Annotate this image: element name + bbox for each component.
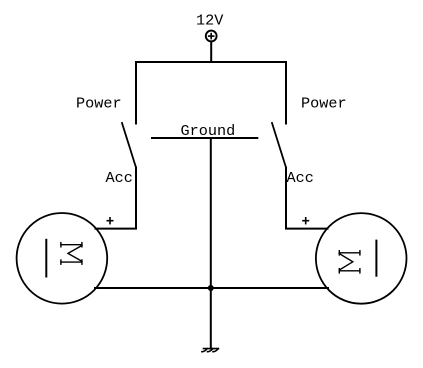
motor M1 (left) [17,213,108,304]
junction node at center/bottom bus [208,285,214,291]
motor M2 (right) [316,213,407,304]
ground (chassis) symbol [202,349,218,352]
svg-text:12V: 12V [196,12,224,30]
wire from 12V terminal to top bus [210,41,212,62]
wire right drop to switch [285,62,287,124]
wire right switch to motor + [286,168,328,229]
switch S2 arm (right, Power/Acc) [272,123,286,168]
svg-text:Acc: Acc [106,169,133,187]
wire left drop to switch [135,62,137,124]
wire center vertical (ground bar to chassis ground) [210,138,212,349]
wire top bus [136,61,286,63]
switch S1 arm (left, Power/Acc) [122,123,136,168]
label + (left) [107,217,114,224]
svg-text:Acc: Acc [287,169,314,187]
wire ground bar [152,137,257,139]
label + (right) [302,217,309,224]
wire left switch to motor + [96,168,137,229]
battery terminal B1 (+12V supply) [206,31,217,42]
wire bottom bus (motor returns) [95,287,328,289]
svg-text:Power: Power [76,95,122,113]
svg-text:Power: Power [301,95,347,113]
